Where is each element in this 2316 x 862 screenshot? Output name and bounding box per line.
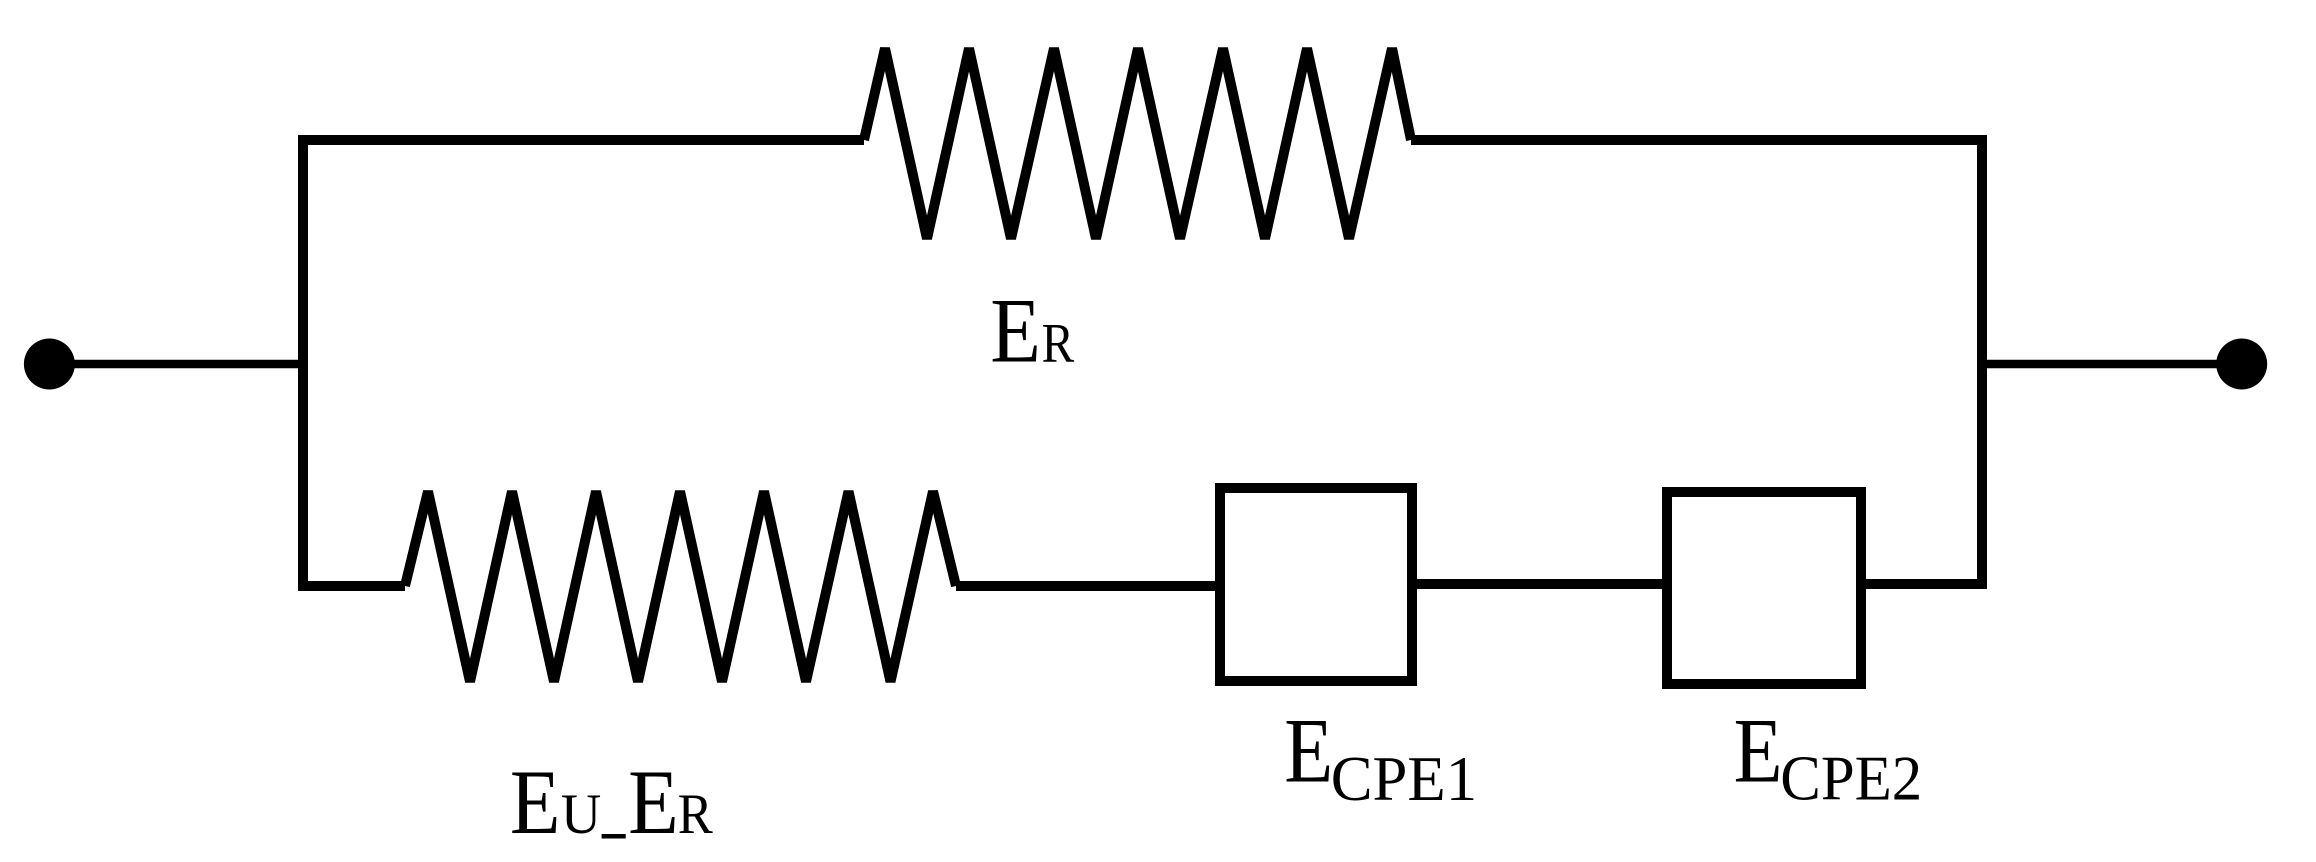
svg-text:E: E bbox=[1734, 699, 1783, 801]
CPE element ECPE1 bbox=[1220, 488, 1412, 681]
svg-text:E: E bbox=[628, 751, 679, 853]
svg-text:CPE1: CPE1 bbox=[1331, 743, 1477, 814]
resistor ER bbox=[864, 48, 1411, 238]
wire: right vertical junction bar bbox=[1977, 135, 1987, 589]
wire: left vertical junction bar bbox=[298, 135, 308, 591]
svg-text:E: E bbox=[990, 280, 1041, 382]
resistor EU_ER bbox=[405, 491, 956, 681]
wire: CPE element ECPE2 to right junction bbox=[1864, 579, 1987, 589]
label ECPE2 bbox=[1734, 699, 1923, 814]
svg-text:E: E bbox=[510, 751, 561, 853]
CPE element ECPE2 bbox=[1667, 492, 1861, 684]
svg-text:E: E bbox=[1284, 699, 1333, 801]
wire: right junction to right terminal bbox=[1977, 360, 2242, 369]
wire: resistor EU_ER to CPE element ECPE1 bbox=[956, 581, 1217, 591]
wire: left terminal lead bbox=[49, 360, 308, 369]
label ER bbox=[990, 280, 1074, 382]
svg-text:R: R bbox=[1042, 313, 1074, 375]
node: right terminal bbox=[2216, 339, 2267, 390]
wire: bottom branch, junction to resistor EU_ER bbox=[298, 581, 405, 591]
svg-text:CPE2: CPE2 bbox=[1780, 742, 1922, 814]
wire: top branch, resistor ER to right junction bbox=[1411, 135, 1987, 145]
wire: CPE element ECPE1 to CPE element ECPE2 bbox=[1415, 579, 1664, 589]
svg-text:U: U bbox=[561, 784, 601, 847]
label EU_ER bbox=[510, 751, 713, 853]
wire: top branch, junction to resistor ER bbox=[298, 135, 864, 145]
node: left terminal bbox=[24, 339, 75, 390]
label ECPE1 bbox=[1284, 699, 1477, 814]
svg-text:R: R bbox=[678, 782, 713, 845]
